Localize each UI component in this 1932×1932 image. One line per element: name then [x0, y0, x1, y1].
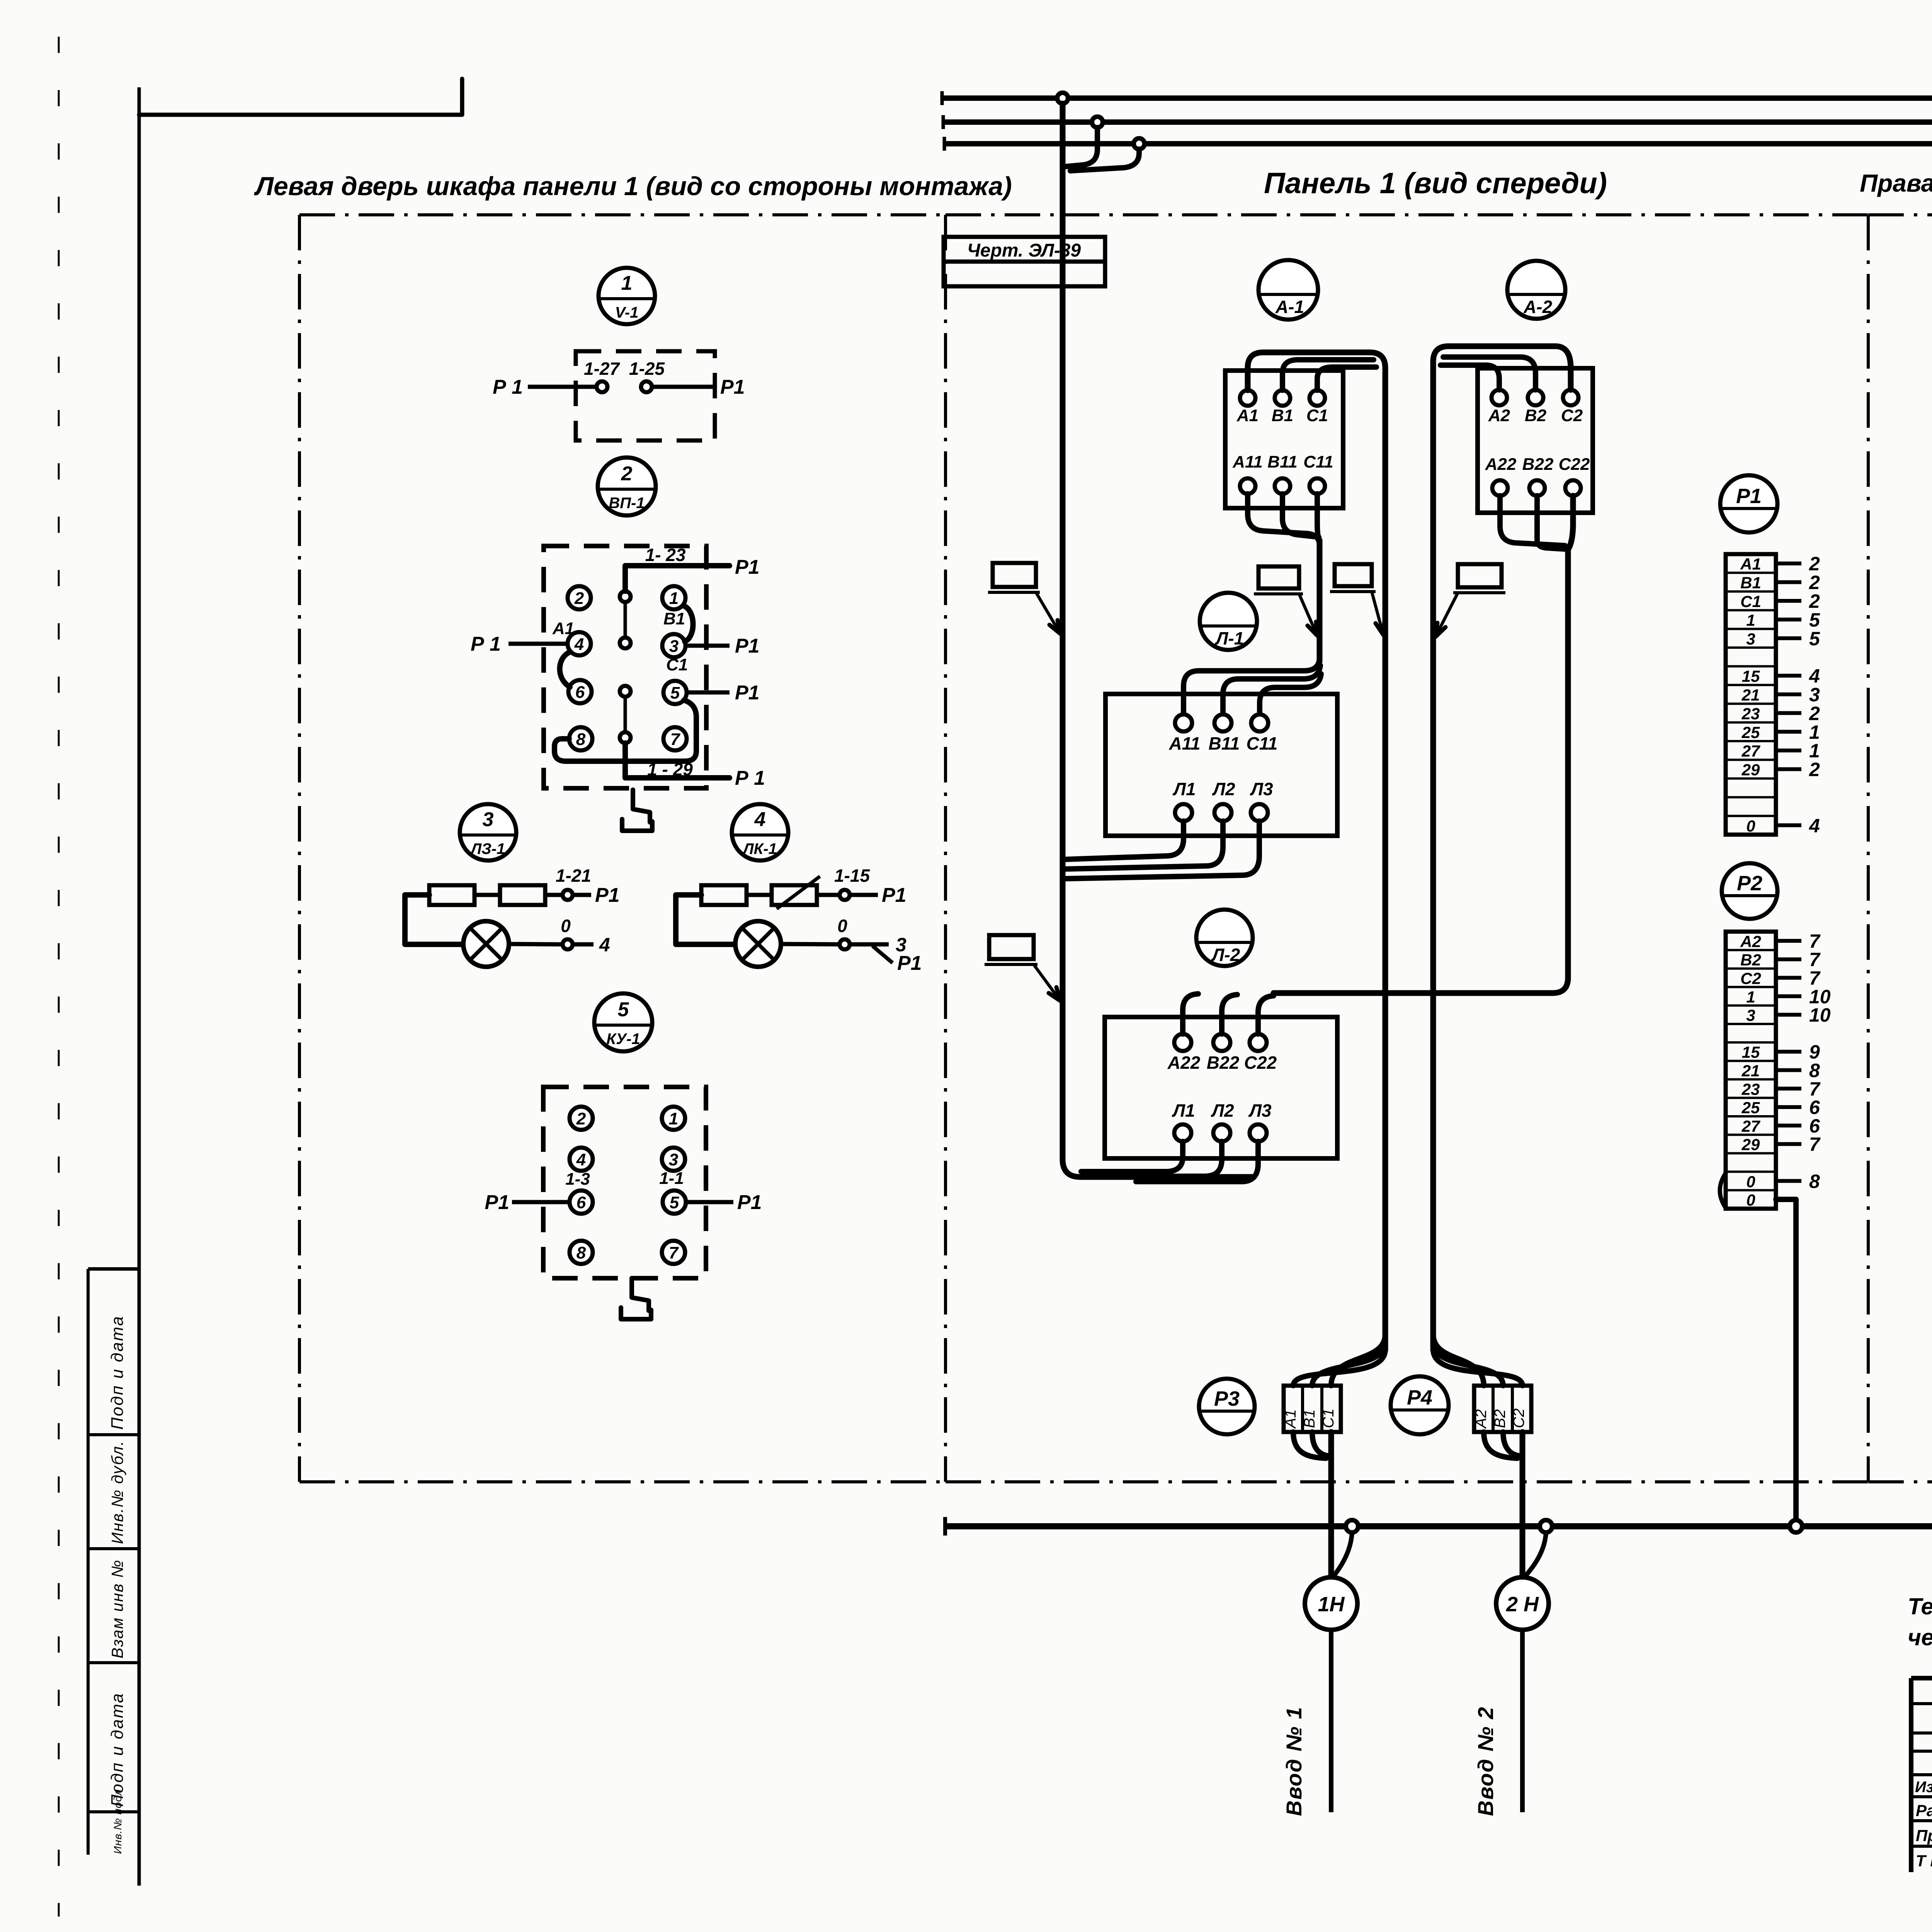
- terminal strip P1 designator circle: [1720, 475, 1777, 532]
- title block revision table texts: [1915, 1779, 1932, 1870]
- svg-text:Р1: Р1: [882, 884, 906, 906]
- null bus junction dots: [1346, 1520, 1802, 1532]
- svg-text:В1: В1: [663, 609, 685, 628]
- svg-text:25: 25: [1742, 1099, 1760, 1117]
- svg-text:С11: С11: [1303, 452, 1333, 471]
- svg-text:В2: В2: [1740, 951, 1761, 969]
- svg-text:В1: В1: [1301, 1409, 1318, 1428]
- bus L2 (power bus): [943, 115, 1932, 129]
- svg-text:4: 4: [599, 934, 610, 956]
- svg-text:А22: А22: [1485, 455, 1517, 474]
- component 3 green lamp LZ-1 designator circle: [460, 804, 516, 861]
- svg-text:8: 8: [1809, 1170, 1820, 1192]
- bus L1 (power bus): [944, 137, 1932, 151]
- svg-text:29: 29: [1742, 1136, 1760, 1154]
- title block revision table grid: [1911, 1678, 1932, 1872]
- svg-text:7: 7: [670, 730, 681, 749]
- svg-text:С1: С1: [1306, 406, 1328, 425]
- cable tag callout to supply wire 1: [1330, 564, 1384, 635]
- cable tag callout to A-1/L-1 bundle: [1254, 566, 1317, 636]
- bus L3 (power bus): [942, 91, 1932, 105]
- supply wire 1 branch C1: [1317, 367, 1376, 390]
- boundary left door / center panel: [944, 215, 947, 1482]
- svg-text:5: 5: [670, 1193, 679, 1212]
- LK-1 lamp: [735, 921, 781, 967]
- svg-text:21: 21: [1742, 686, 1760, 704]
- svg-text:Панель 1 (вид спереди): Панель 1 (вид спереди): [1264, 167, 1607, 200]
- L-2 input terminals: [1174, 1034, 1267, 1051]
- svg-text:1-21: 1-21: [556, 866, 591, 886]
- svg-text:15: 15: [1742, 667, 1760, 685]
- svg-text:В2: В2: [1492, 1409, 1509, 1428]
- svg-text:0: 0: [561, 916, 571, 936]
- svg-text:Левая дверь шкафа панели 1: Левая дверь шкафа панели 1 (вид со сторо…: [253, 172, 1012, 201]
- svg-text:Взам инв №: Взам инв №: [108, 1560, 126, 1658]
- wire C11 from breaker: [1317, 494, 1320, 541]
- wire P1 to KU-1 terminal 6: [485, 1191, 569, 1214]
- svg-text:Р1: Р1: [1736, 485, 1762, 508]
- terminal P3 designator circle: [1199, 1379, 1255, 1434]
- svg-text:А1: А1: [1740, 555, 1761, 573]
- svg-text:В22: В22: [1207, 1053, 1240, 1073]
- svg-text:3: 3: [483, 808, 494, 831]
- svg-text:ЛК-1: ЛК-1: [742, 840, 777, 857]
- svg-text:С2: С2: [1510, 1408, 1527, 1428]
- title block frame: [1911, 1612, 1932, 1872]
- svg-text:Р1: Р1: [897, 952, 922, 975]
- boundary center panel / right door: [1867, 215, 1870, 1482]
- svg-text:1: 1: [669, 1109, 678, 1128]
- svg-text:С11: С11: [1247, 733, 1278, 753]
- wire bundle into L-1 terminal C11: [1260, 674, 1321, 713]
- svg-text:ВП-1: ВП-1: [609, 495, 645, 512]
- LK-1 lamp terminal 0 wires 3 and P1: [781, 916, 922, 975]
- A-2 input terminals: [1492, 390, 1578, 405]
- svg-text:2: 2: [574, 589, 584, 608]
- cable tag callout to drop wire lower: [985, 935, 1060, 1001]
- A-2 input labels A2 B2 C2: [1488, 406, 1583, 425]
- svg-text:Р3: Р3: [1214, 1387, 1240, 1410]
- svg-text:3: 3: [669, 1150, 678, 1169]
- wire bundle A-2 output down to L-2 input: [1274, 496, 1573, 993]
- main drop wire from bus L3 down to L-2 feed: [1063, 104, 1252, 1177]
- component 1 voltmeter V-1 designator circle: [599, 268, 655, 324]
- svg-text:Изм: Изм: [1915, 1779, 1932, 1796]
- svg-text:2: 2: [621, 463, 633, 485]
- VP-1 box (dashed): [544, 546, 706, 788]
- left door outline: [299, 215, 946, 1482]
- left frame vertical line: [138, 87, 141, 1886]
- reference box Черт. ЭЛ-39: [944, 237, 1105, 286]
- L-1 input terminals: [1175, 714, 1268, 731]
- V-1 terminal box (dashed): [576, 351, 715, 440]
- svg-text:10: 10: [1809, 1004, 1831, 1026]
- svg-text:27: 27: [1742, 742, 1760, 760]
- wire L-2 L3 to feed bundle: [1136, 1141, 1258, 1182]
- svg-text:С1: С1: [1740, 592, 1761, 611]
- supply wire 2 branch B2: [1443, 357, 1536, 390]
- terminal strip P1 wire tags: [1776, 553, 1820, 837]
- VP-1 contact terminals 1-8: [568, 586, 687, 750]
- LZ-1 lamp to terminal 0 wire 4: [509, 916, 610, 956]
- wire KU-1 terminal 5 to P1: [686, 1191, 762, 1214]
- L-2 labels L1 L2 L3: [1172, 1100, 1272, 1121]
- A-1 input terminals: [1240, 390, 1325, 406]
- svg-text:2: 2: [576, 1109, 586, 1128]
- V-1 terminals: [597, 381, 652, 392]
- wire bundle A-1 output to L-1 input: [1317, 540, 1323, 662]
- svg-text:А22: А22: [1167, 1053, 1201, 1073]
- svg-text:2 Н: 2 Н: [1506, 1593, 1539, 1616]
- svg-text:6: 6: [577, 1193, 586, 1212]
- svg-text:0: 0: [1746, 817, 1755, 835]
- KU-1 box (dashed): [543, 1087, 706, 1278]
- A-2 output terminals: [1492, 480, 1581, 496]
- supply wire 2: A-2 input bundle down to block A2B2C2: [1433, 346, 1571, 1350]
- L-2 line terminals: [1174, 1124, 1267, 1141]
- svg-text:Р1: Р1: [735, 556, 760, 578]
- breaker A-1 designator circle: [1259, 260, 1318, 320]
- svg-text:Р 1: Р 1: [493, 376, 523, 398]
- svg-text:Л-2: Л-2: [1211, 945, 1240, 965]
- cable tag callout to drop wire upper: [988, 563, 1060, 634]
- VP-1 mounting strap symbol: [622, 790, 652, 831]
- A-2 breaker box: [1478, 368, 1593, 513]
- svg-text:Подп и дата: Подп и дата: [108, 1315, 127, 1430]
- wire L-2 L2 to feed bundle: [1113, 1141, 1222, 1177]
- wire L-2 B22 riser: [1222, 995, 1237, 1034]
- svg-text:4: 4: [754, 808, 766, 831]
- wire P1 to V-1 left terminal 1-27: [493, 376, 596, 398]
- svg-text:А11: А11: [1169, 733, 1201, 753]
- svg-text:С22: С22: [1244, 1053, 1277, 1073]
- title left door: [253, 172, 1012, 201]
- svg-text:С22: С22: [1559, 455, 1590, 474]
- svg-text:4: 4: [576, 1150, 586, 1169]
- wire VP-1 terminal 3 to P1: [685, 635, 760, 657]
- wire V-1 right terminal 1-25 to P1: [652, 376, 745, 398]
- top-left corner bracket: [139, 79, 462, 115]
- svg-text:А1: А1: [552, 619, 574, 638]
- svg-text:1- 23: 1- 23: [645, 545, 686, 565]
- svg-text:Р1: Р1: [595, 884, 620, 906]
- svg-text:Р 1: Р 1: [471, 633, 501, 655]
- supply wire 1: A-1 input bundle down to block A1B1C1: [1248, 352, 1385, 1350]
- svg-text:Л-1: Л-1: [1215, 628, 1244, 648]
- KU-1 terminals 1-8: [570, 1107, 686, 1264]
- component 5 control switch KU-1 designator circle: [594, 993, 652, 1051]
- svg-text:21: 21: [1742, 1062, 1760, 1080]
- svg-text:Р2: Р2: [1737, 872, 1762, 895]
- svg-text:В11: В11: [1209, 733, 1240, 753]
- svg-text:23: 23: [1742, 704, 1760, 723]
- svg-text:8: 8: [576, 730, 586, 749]
- right door outline: [1868, 215, 1932, 1482]
- svg-text:5: 5: [618, 998, 629, 1021]
- svg-text:В1: В1: [1272, 406, 1293, 425]
- svg-text:Ввод № 1: Ввод № 1: [1282, 1706, 1306, 1816]
- svg-text:С1: С1: [1320, 1408, 1337, 1428]
- terminal strip P2 wire tags: [1776, 930, 1831, 1192]
- L-2 labels A22 B22 C22: [1167, 1053, 1277, 1073]
- svg-text:3: 3: [1746, 1006, 1755, 1024]
- wire B22 from breaker: [1537, 496, 1565, 549]
- label Ввод №1: [1282, 1706, 1306, 1816]
- component 4 red lamp LK-1 designator circle: [732, 804, 788, 861]
- center panel outline: [946, 215, 1868, 1482]
- pump input circle 1H: [1305, 1577, 1357, 1630]
- cable tag callout to supply wire 2: [1435, 564, 1505, 637]
- svg-text:4: 4: [574, 635, 584, 654]
- svg-text:1-25: 1-25: [629, 359, 665, 379]
- svg-text:1: 1: [1746, 988, 1755, 1006]
- svg-text:7: 7: [1809, 1134, 1821, 1155]
- wire B11 from breaker: [1282, 494, 1319, 537]
- terminal strip P2 designator circle: [1722, 863, 1777, 919]
- svg-text:0: 0: [1746, 1191, 1755, 1209]
- wire L-2 C22 riser: [1258, 996, 1274, 1034]
- cable from block A2B2C2 down to input 2: [1484, 1432, 1522, 1577]
- svg-text:Правая дверь шкафа панели 1: Правая дверь шкафа панели 1(вид со сторо…: [1860, 169, 1932, 197]
- svg-text:1-15: 1-15: [834, 866, 870, 886]
- wire bundle into L-1 terminal A11: [1184, 657, 1320, 713]
- feeder below 1H: [1329, 1630, 1333, 1812]
- svg-text:Л1: Л1: [1172, 779, 1196, 799]
- svg-text:5: 5: [670, 684, 680, 702]
- svg-text:1Н: 1Н: [1318, 1593, 1345, 1616]
- feeder below 2H: [1520, 1630, 1525, 1812]
- L-1 labels L1 L2 L3: [1172, 779, 1273, 799]
- svg-text:Р4: Р4: [1407, 1386, 1432, 1409]
- svg-text:Л1: Л1: [1172, 1100, 1195, 1121]
- KU-1 mounting strap symbol: [621, 1278, 651, 1319]
- wires supply 2 into block A2B2C2: [1433, 1334, 1522, 1386]
- title center panel: [1264, 167, 1607, 200]
- svg-text:1-1: 1-1: [659, 1169, 684, 1188]
- LK-1 wire resistor to lamp: [676, 895, 735, 944]
- svg-text:0: 0: [837, 916, 847, 936]
- svg-text:С2: С2: [1561, 406, 1583, 425]
- svg-text:1: 1: [621, 272, 633, 294]
- input cable block A2 B2 C2: [1473, 1386, 1531, 1432]
- bracket joining P2 zero rows: [1720, 1173, 1726, 1208]
- L-1 labels A11 B11 C11: [1169, 733, 1278, 753]
- svg-text:А1: А1: [1236, 406, 1259, 425]
- svg-text:Разраб.: Разраб.: [1916, 1801, 1932, 1820]
- svg-text:1: 1: [1746, 611, 1755, 629]
- wire VP-1 terminal 5 to P1: [687, 682, 760, 704]
- A-1 output labels A11 B11 C11: [1232, 452, 1333, 471]
- svg-text:С2: С2: [1740, 969, 1761, 988]
- wire L-1 L2 to drop bundle: [1065, 821, 1223, 869]
- svg-text:7: 7: [669, 1243, 679, 1262]
- A-1 breaker box: [1225, 371, 1343, 508]
- wire VP-1 pole to P1 (1-23): [625, 556, 760, 591]
- neutral tap to input 1: [1334, 1532, 1352, 1576]
- jumper VP-1 4 to 6: [560, 652, 570, 687]
- svg-text:1-3: 1-3: [565, 1170, 590, 1189]
- svg-text:А-2: А-2: [1523, 297, 1553, 317]
- svg-text:В11: В11: [1267, 452, 1297, 471]
- svg-text:6: 6: [575, 683, 585, 702]
- wire A22 from breaker: [1500, 496, 1565, 546]
- svg-text:8: 8: [577, 1243, 586, 1262]
- wire P1 to VP-1 terminal 4: [471, 633, 568, 655]
- L-1 line terminals: [1175, 804, 1268, 821]
- svg-text:15: 15: [1742, 1043, 1760, 1061]
- svg-text:А-1: А-1: [1275, 297, 1304, 317]
- svg-text:2: 2: [1809, 759, 1820, 781]
- note line 1: [1908, 1594, 1932, 1619]
- LZ-1 wire resistor to lamp: [405, 895, 463, 944]
- wire bundle into L-1 terminal B11: [1223, 665, 1320, 713]
- svg-text:Т контр: Т контр: [1916, 1852, 1932, 1870]
- svg-text:29: 29: [1742, 761, 1760, 779]
- supply wire 1 branch B1: [1282, 360, 1374, 390]
- svg-text:Л3: Л3: [1250, 779, 1273, 799]
- svg-text:0: 0: [1746, 1172, 1755, 1190]
- svg-text:Р1: Р1: [720, 376, 745, 398]
- svg-text:А1: А1: [1282, 1409, 1299, 1429]
- terminal strip P1: [1726, 554, 1776, 835]
- supply wire 2 branch A2: [1440, 365, 1499, 390]
- svg-text:V-1: V-1: [615, 304, 639, 321]
- note line 2: [1908, 1624, 1932, 1650]
- svg-text:Л2: Л2: [1211, 1100, 1234, 1121]
- left binding dashed margin line: [58, 37, 60, 1917]
- input cable block A1 B1 C1: [1282, 1386, 1341, 1432]
- wire L-2 L1 to feed bundle: [1081, 1141, 1183, 1172]
- svg-text:3: 3: [669, 637, 679, 656]
- LZ-1 series resistors: [429, 885, 545, 905]
- svg-text:Ввод № 2: Ввод № 2: [1473, 1706, 1498, 1816]
- wire P2 zero row to null bus: [1776, 1199, 1796, 1520]
- svg-text:А2: А2: [1488, 406, 1510, 425]
- document stamp column (left margin): [88, 1269, 139, 1855]
- neutral tap to input 2: [1526, 1532, 1546, 1576]
- A-1 output terminals: [1240, 478, 1325, 494]
- A-1 input labels A1 B1 C1: [1236, 406, 1328, 425]
- wire A11 from breaker: [1248, 494, 1320, 546]
- KU-1 wire tags 1-3 1-1: [565, 1169, 684, 1189]
- LZ-1 lamp: [463, 921, 509, 967]
- terminal strip P2: [1726, 932, 1776, 1209]
- svg-text:1-27: 1-27: [584, 359, 620, 379]
- svg-text:Инв.№ подл: Инв.№ подл: [112, 1789, 124, 1854]
- wire VP-1 lower pole to P1 (1-29): [625, 743, 765, 789]
- label Ввод №2: [1473, 1706, 1498, 1816]
- svg-text:В1: В1: [1740, 574, 1761, 592]
- svg-text:Р1: Р1: [735, 635, 760, 657]
- bus tap junction dots: [1057, 93, 1145, 149]
- svg-text:Л3: Л3: [1248, 1100, 1272, 1121]
- svg-text:ЛЗ-1: ЛЗ-1: [470, 840, 505, 857]
- svg-text:25: 25: [1742, 723, 1760, 742]
- svg-text:1 - 29: 1 - 29: [647, 759, 693, 779]
- svg-text:Л2: Л2: [1212, 779, 1235, 799]
- svg-text:23: 23: [1742, 1080, 1760, 1098]
- jumper VP-1 1 to 3: [684, 606, 693, 641]
- VP-1 switch pole upper: [620, 591, 631, 648]
- terminal P4 designator circle: [1391, 1376, 1449, 1434]
- contactor L-1 designator circle: [1200, 593, 1257, 650]
- svg-text:В2: В2: [1525, 406, 1547, 425]
- svg-text:Пров: Пров: [1916, 1827, 1932, 1845]
- svg-text:27: 27: [1742, 1117, 1760, 1135]
- VP-1 switch pole lower: [620, 686, 631, 743]
- svg-text:5: 5: [1809, 628, 1820, 650]
- L-1 contactor box: [1105, 694, 1337, 836]
- svg-text:КУ-1: КУ-1: [606, 1031, 640, 1048]
- null bus (thick): [945, 1517, 1932, 1536]
- svg-text:С1: С1: [666, 655, 688, 674]
- svg-text:Р 1: Р 1: [735, 767, 765, 789]
- component 2 switch VP-1 designator circle: [598, 457, 656, 515]
- svg-text:1: 1: [669, 589, 679, 608]
- svg-text:Технические данные электрооб: Технические данные электрооборудования-: [1908, 1594, 1932, 1619]
- jumper VP-1 5 to 8: [554, 700, 696, 761]
- svg-text:В22: В22: [1522, 455, 1554, 474]
- cable from block A1B1C1 down to input 1: [1293, 1432, 1331, 1577]
- contactor L-2 designator circle: [1196, 910, 1253, 966]
- svg-text:черт. ЭЛ-40.: черт. ЭЛ-40.: [1908, 1624, 1932, 1650]
- svg-text:А2: А2: [1473, 1409, 1490, 1429]
- wire L-2 A22 riser: [1183, 994, 1198, 1034]
- svg-text:3: 3: [1746, 630, 1755, 648]
- title right door: [1860, 169, 1932, 197]
- A-2 output labels A22 B22 C22: [1485, 455, 1590, 474]
- pump input circle 2H: [1496, 1577, 1549, 1630]
- VP-1 phase labels A1 B1 C1: [552, 609, 688, 674]
- svg-text:Инв.№ дубл.: Инв.№ дубл.: [108, 1440, 126, 1544]
- breaker A-2 designator circle: [1507, 261, 1565, 319]
- tap wire from bus L2: [1066, 128, 1097, 167]
- LK-1 series resistors (adjustable): [701, 876, 820, 909]
- svg-text:Р1: Р1: [735, 682, 760, 704]
- wires supply 1 into block A1B1C1: [1293, 1334, 1385, 1386]
- svg-text:4: 4: [1809, 815, 1820, 837]
- wire L-1 L1 to drop bundle: [1065, 821, 1184, 859]
- svg-text:Черт. ЭЛ-39: Черт. ЭЛ-39: [967, 240, 1081, 261]
- svg-text:А11: А11: [1232, 452, 1262, 471]
- svg-text:Р1: Р1: [737, 1191, 762, 1214]
- svg-text:А2: А2: [1740, 932, 1761, 951]
- LZ-1 terminal 1-21 to P1: [545, 866, 620, 906]
- L-2 contactor box: [1105, 1017, 1337, 1158]
- LK-1 terminal 1-15 to P1: [817, 866, 906, 906]
- wire L-1 L3 to drop bundle: [1065, 821, 1259, 879]
- VP-1 wire tag 1-23: [645, 545, 686, 565]
- tap wire from bus L1: [1070, 149, 1139, 171]
- svg-text:Р1: Р1: [485, 1191, 509, 1214]
